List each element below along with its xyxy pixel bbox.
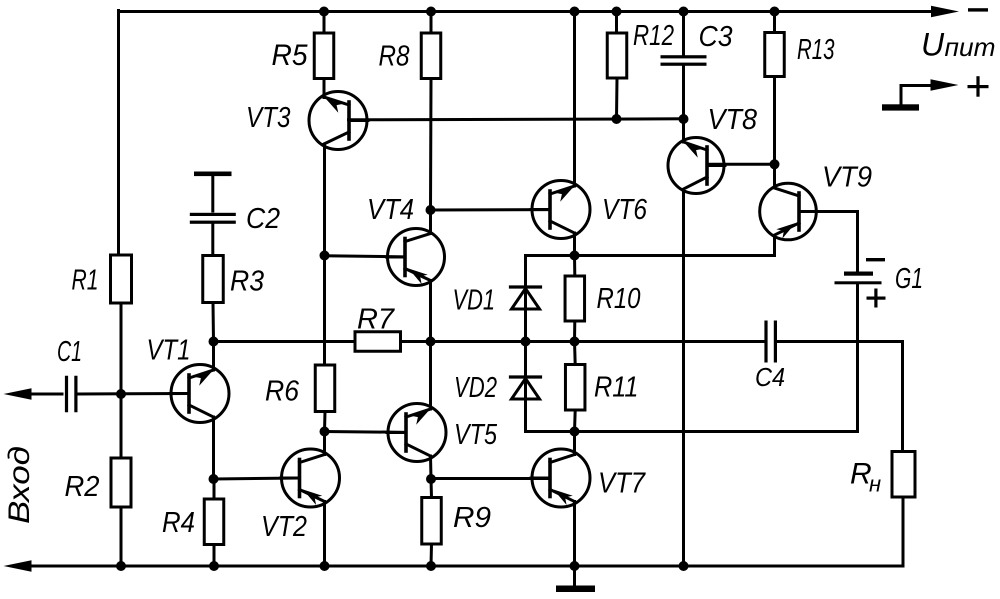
svg-text:пит: пит (945, 32, 996, 62)
svg-text:R12: R12 (633, 20, 674, 52)
svg-text:R7: R7 (357, 304, 396, 336)
svg-text:VT1: VT1 (147, 335, 191, 367)
svg-text:VT4: VT4 (367, 194, 414, 226)
svg-text:VD1: VD1 (453, 285, 496, 317)
svg-text:R1: R1 (72, 265, 99, 297)
svg-text:R4: R4 (162, 507, 195, 539)
svg-text:R9: R9 (453, 502, 491, 534)
svg-text:VT5: VT5 (454, 419, 498, 451)
svg-text:VT2: VT2 (261, 511, 307, 543)
svg-text:R10: R10 (597, 283, 641, 315)
svg-text:G1: G1 (895, 263, 923, 295)
svg-text:R5: R5 (272, 39, 308, 72)
svg-text:R6: R6 (265, 376, 300, 408)
svg-text:VT8: VT8 (708, 104, 758, 136)
svg-text:R8: R8 (379, 41, 410, 73)
svg-text:VT3: VT3 (246, 102, 291, 134)
svg-text:R3: R3 (230, 266, 264, 298)
svg-text:R13: R13 (797, 34, 835, 66)
svg-text:C2: C2 (246, 203, 280, 235)
svg-text:Вход: Вход (3, 446, 36, 524)
svg-text:C4: C4 (755, 362, 785, 392)
svg-text:VT9: VT9 (822, 162, 872, 194)
svg-text:VT6: VT6 (602, 194, 648, 226)
svg-text:R2: R2 (65, 471, 100, 503)
svg-text:VT7: VT7 (598, 468, 647, 500)
svg-text:U: U (921, 27, 945, 63)
svg-text:н: н (869, 472, 881, 497)
svg-text:C1: C1 (57, 336, 82, 368)
svg-text:VD2: VD2 (454, 372, 497, 404)
svg-text:R11: R11 (594, 372, 639, 404)
svg-text:C3: C3 (699, 21, 733, 53)
